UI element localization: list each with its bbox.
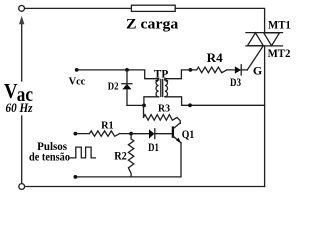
wire TP secondary bottom to MT2 rail (165, 97, 265, 106)
node junction D2 top (125, 68, 129, 72)
node Vcc dot (75, 68, 79, 72)
transistor Q1 (173, 123, 181, 143)
node secondary return dot (188, 103, 192, 107)
resistor R4 (190, 67, 234, 73)
wire gate diagonal (247, 46, 263, 70)
triac MT1/MT2 (246, 33, 283, 46)
primary polarity arrow (155, 79, 158, 82)
wire TP secondary top to R4 (165, 70, 191, 79)
svg-text:R3: R3 (158, 102, 171, 114)
svg-text:G: G (253, 64, 262, 78)
node A (D2/TP/R3 junction) (142, 104, 146, 108)
svg-text:Z carga: Z carga (126, 17, 179, 33)
svg-text:60 Hz: 60 Hz (6, 100, 34, 115)
svg-text:D2: D2 (108, 80, 119, 92)
load box Z carga (131, 5, 175, 11)
diode D2 (122, 70, 132, 106)
node B (R1/R2/D1 junction) (129, 132, 133, 136)
Vac source arrow (19, 16, 24, 81)
resistor R1 (75, 131, 131, 136)
svg-text:R4: R4 (207, 50, 224, 65)
secondary winding (165, 80, 168, 97)
diode D3 (235, 65, 248, 75)
svg-text:R2: R2 (114, 150, 127, 162)
wire right rail (MT2 down to bottom) (264, 46, 266, 187)
secondary polarity arrow (166, 79, 169, 82)
wire Vcc to TP primary top (77, 70, 159, 79)
wire bottom rail (25, 186, 265, 188)
terminal top-left (19, 5, 25, 11)
wire top (box to right corner, down to triac MT1) (175, 8, 264, 32)
node R4 junction dot (189, 68, 193, 72)
wire node B to D1 (131, 133, 149, 135)
svg-text:D1: D1 (148, 142, 159, 154)
transformer TP (155, 79, 169, 97)
node pulse source top dot (74, 132, 78, 136)
resistor R2 (128, 134, 133, 177)
diode D1 (149, 129, 172, 139)
svg-text:D3: D3 (230, 77, 241, 89)
primary winding (156, 80, 159, 97)
wire left rail lower (21, 116, 23, 184)
wire top (terminal to Z carga box) (25, 7, 132, 9)
wire Q1 emitter down and left (return) (75, 143, 181, 177)
svg-text:MT1: MT1 (268, 20, 291, 32)
wire TP primary bottom to node A (144, 97, 159, 104)
svg-text:MT2: MT2 (268, 48, 291, 60)
wire D2 bottom to node A (127, 104, 144, 106)
svg-text:de tensão: de tensão (29, 149, 70, 163)
resistor R3 (144, 105, 181, 123)
node pulse source bottom dot (74, 175, 78, 179)
pulse waveform symbol (70, 147, 95, 158)
svg-text:R1: R1 (101, 120, 114, 132)
svg-text:Q1: Q1 (182, 129, 195, 141)
svg-text:Vcc: Vcc (69, 76, 86, 88)
core (160, 80, 162, 97)
terminal bottom-left (19, 184, 25, 190)
